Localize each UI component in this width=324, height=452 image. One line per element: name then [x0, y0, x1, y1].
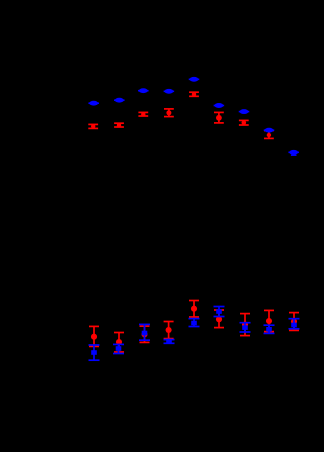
bottom panel red point 8 error bar	[264, 310, 274, 331]
top panel red point 2 marker	[117, 123, 121, 127]
top panel red point 5 marker	[192, 92, 196, 96]
top panel blue point 8 x-error stub	[264, 129, 275, 131]
bottom panel blue point 3 marker	[142, 331, 148, 336]
top panel blue point 7 marker	[240, 109, 249, 114]
bottom panel blue point 4 error bar	[164, 340, 175, 344]
top panel red point 2 error bar	[114, 123, 124, 127]
top panel red point 4 error bar	[164, 109, 174, 117]
top panel blue point 2 x-error stub	[114, 99, 125, 101]
top panel blue point 7 x-error stub	[239, 111, 250, 113]
top panel blue point 3 marker	[139, 88, 148, 93]
top panel red point 8 marker	[267, 133, 271, 137]
bottom panel red point 5 error bar	[189, 301, 199, 318]
bottom panel blue point 1 marker	[91, 350, 97, 355]
bottom panel red point 1 marker	[91, 334, 97, 340]
bottom panel blue point 9 error bar	[289, 319, 300, 329]
top panel red point 3 error bar	[138, 112, 148, 116]
bottom panel red point 2 error bar	[114, 333, 124, 353]
top panel blue point 1 marker	[89, 101, 98, 106]
bottom panel blue point 5 marker	[191, 321, 197, 326]
bottom panel red point 1 error bar	[89, 326, 99, 346]
top panel red point 3 marker	[141, 112, 145, 116]
top panel red point 1 marker	[91, 124, 95, 128]
top panel red point 7 marker	[242, 120, 247, 125]
bottom panel red point 2 marker	[116, 339, 122, 345]
bottom panel blue point 4 marker	[166, 339, 172, 344]
top panel blue point 3 x-error stub	[138, 90, 149, 92]
bottom panel red point 3 marker	[141, 331, 147, 337]
bottom panel blue point 2 marker	[116, 346, 122, 351]
top panel blue point 8 marker	[265, 128, 274, 133]
bottom panel red point 5 marker	[191, 306, 197, 312]
bottom panel blue point 7 error bar	[240, 323, 251, 332]
bottom panel red point 7 marker	[242, 321, 248, 327]
bottom panel blue point 7 marker	[242, 325, 248, 330]
bottom panel red point 9 error bar	[289, 313, 299, 331]
top panel blue point 1 x-error stub	[88, 102, 99, 104]
top panel blue point 5 marker	[190, 77, 199, 82]
top panel blue point 6 marker	[215, 103, 224, 108]
top panel blue point 4 x-error stub	[164, 90, 175, 92]
top panel blue point 6 x-error stub	[214, 105, 225, 107]
top panel blue point 4 marker	[165, 89, 174, 94]
bottom panel blue point 5 error bar	[189, 319, 200, 327]
bottom panel blue point 1 error bar	[89, 345, 100, 360]
top panel blue point 9 marker	[289, 150, 298, 155]
top panel red point 7 error bar	[239, 120, 249, 125]
bottom panel red point 4 error bar	[164, 322, 174, 339]
top panel red point 8 error bar	[264, 131, 274, 139]
bottom panel red point 8 marker	[266, 318, 272, 324]
top panel red point 6 marker	[216, 115, 222, 121]
top panel red point 6 error bar	[214, 112, 224, 123]
bottom panel blue point 6 error bar	[214, 307, 225, 317]
top panel red point 1 error bar	[88, 124, 98, 128]
top panel blue point 9 error bar cap	[291, 154, 297, 156]
top panel red point 5 error bar	[189, 92, 199, 96]
bottom panel red point 6 marker	[216, 316, 222, 322]
top panel red point 4 marker	[166, 110, 171, 115]
bottom panel red point 6 error bar	[214, 310, 224, 328]
bottom panel blue point 8 marker	[266, 327, 272, 332]
bottom panel blue point 3 error bar	[139, 324, 150, 340]
top panel blue point 2 marker	[115, 98, 124, 103]
bottom panel red point 3 error bar	[140, 326, 150, 342]
bottom panel red point 9 marker	[291, 318, 297, 324]
top panel blue point 5 x-error stub	[189, 78, 200, 80]
bottom panel blue point 6 marker	[216, 309, 222, 314]
bottom panel blue point 2 error bar	[113, 344, 124, 353]
bottom panel blue point 8 error bar	[264, 325, 275, 333]
bottom panel red point 4 marker	[166, 327, 172, 333]
bottom panel blue point 9 marker	[291, 323, 297, 328]
top panel blue point 9 x-error stub	[288, 151, 299, 153]
bottom panel red point 7 error bar	[240, 314, 250, 336]
